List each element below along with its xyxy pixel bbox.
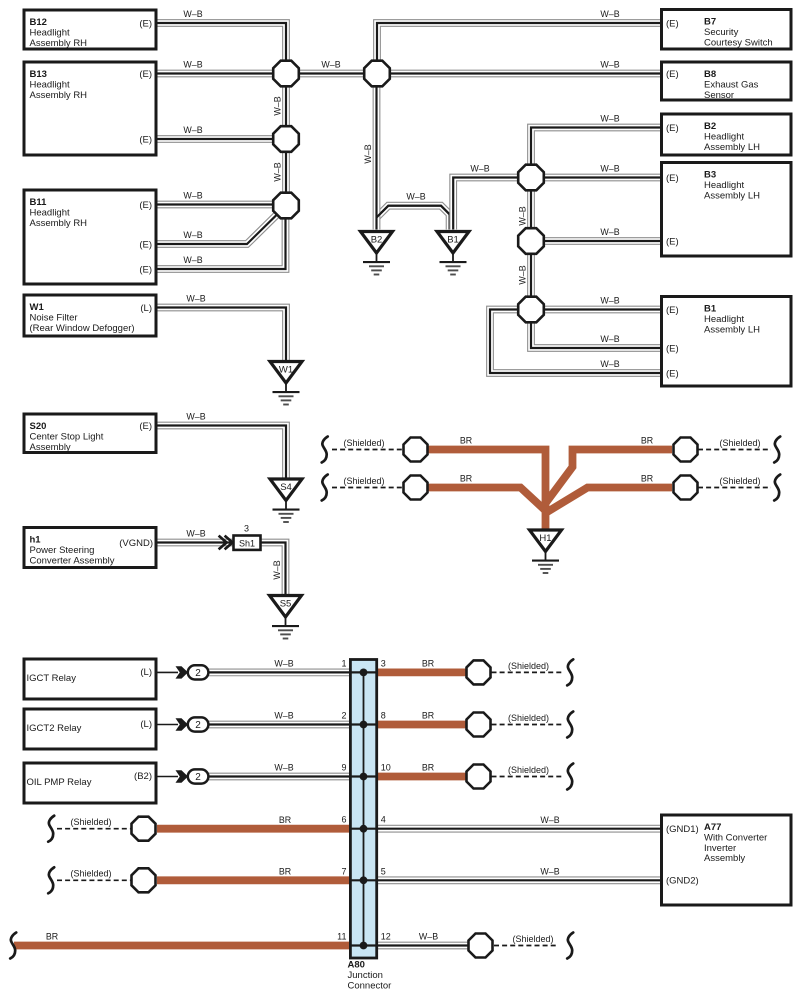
svg-text:(E): (E) [666, 123, 679, 134]
wire W-B jog black core patch [377, 206, 450, 230]
junction connector J/D [273, 193, 299, 219]
label W-B on h1 wire [186, 529, 205, 539]
svg-text:W–B: W–B [600, 334, 619, 344]
ground B2 [361, 232, 393, 275]
label Shielded A80 pin10 [508, 765, 549, 775]
wire W-B A80 pin5 to A77 GND2 [375, 876, 662, 884]
shield break mark A80 pin10 [567, 764, 573, 790]
text B8 Exhaust Gas Sensor [704, 69, 759, 101]
shield connector A80 pin8 [467, 713, 491, 737]
wire W-B junction J/A to J/C [282, 81, 290, 131]
text OIL PMP Relay [27, 777, 92, 788]
wire shield dashed row1 left [332, 449, 404, 451]
connector box B1 Headlight Assembly LH [662, 297, 792, 387]
text B13 Headlight Assembly RH [30, 69, 88, 101]
pin 2 label of A80 [341, 711, 346, 721]
pin 11 label of A80 [337, 932, 346, 942]
label W-B vertical on J/F-J/G wire [518, 265, 528, 284]
svg-text:Assembly LH: Assembly LH [704, 142, 760, 153]
svg-text:S5: S5 [280, 599, 292, 610]
label W-B on B1 pin1 wire [600, 296, 619, 306]
svg-text:Assembly LH: Assembly LH [704, 324, 760, 335]
wire W-B junction J/F to B3 pin2 [538, 237, 662, 245]
pin 1 label of A80 [341, 658, 346, 668]
pin 10 label of A80 [381, 763, 391, 773]
pin (E) 1 of B1 [666, 305, 679, 316]
label BR on A80 pin6 wire [279, 815, 291, 825]
pin (L) of W1 [140, 303, 152, 314]
label W-B on B7 wire [600, 9, 619, 19]
svg-text:11: 11 [337, 932, 346, 942]
shield terminal Sh1 [219, 536, 261, 550]
label W-B on B13 pin2 wire [183, 125, 202, 135]
label W-B on W1 wire [186, 294, 205, 304]
svg-text:BR: BR [279, 815, 291, 825]
pin (VGND) of h1 [119, 538, 153, 549]
svg-text:W–B: W–B [600, 296, 619, 306]
svg-text:B1: B1 [447, 235, 459, 246]
svg-text:(L): (L) [140, 667, 152, 678]
svg-text:W–B: W–B [600, 227, 619, 237]
label W-B vertical on Sh1-groundS5 wire [272, 560, 282, 579]
pin (E) 2 of B11 [139, 239, 152, 250]
label Shielded A80 pin7 [70, 869, 111, 879]
svg-text:W–B: W–B [600, 114, 619, 124]
text B1 Headlight Assembly LH [704, 304, 760, 336]
svg-text:W–B: W–B [518, 206, 528, 225]
svg-text:Courtesy Switch: Courtesy Switch [704, 37, 773, 48]
wire BR A80 pin3 to shield connector [375, 669, 467, 677]
connector box B3 Headlight Assembly LH [662, 163, 792, 257]
svg-text:W–B: W–B [518, 265, 528, 284]
label W-B on A80 pin1 wire [274, 659, 293, 669]
wire shield dashed A80 pin10 row [492, 776, 565, 778]
wire W-B junction J/G to B1 pin2 [531, 316, 662, 348]
svg-text:(E): (E) [139, 200, 152, 211]
shield connector A80 pin12 [469, 934, 493, 958]
label W-B on B1 pin3 wire [600, 359, 619, 369]
svg-text:BR: BR [422, 659, 434, 669]
connector box h1 Power Steering Converter Assembly [24, 528, 156, 568]
text B11 Headlight Assembly RH [30, 197, 88, 229]
junction connector J/C [273, 126, 299, 152]
pin (L) of IGCT Relay [140, 667, 152, 678]
svg-text:(E): (E) [666, 18, 679, 29]
svg-text:A77: A77 [704, 822, 721, 833]
svg-text:W–B: W–B [406, 192, 425, 202]
svg-text:(L): (L) [140, 719, 152, 730]
connector box B2 Headlight Assembly LH [662, 114, 792, 155]
svg-text:(E): (E) [139, 134, 152, 145]
svg-text:W–B: W–B [183, 191, 202, 201]
label W-B on B12 wire [183, 9, 202, 19]
svg-text:Headlight: Headlight [704, 180, 744, 191]
label BR on A80 pin11 wire [46, 932, 58, 942]
pin (E) of S20 [139, 421, 152, 432]
wire shield dashed A80 pin12 row [494, 945, 558, 947]
svg-text:Assembly LH: Assembly LH [704, 190, 760, 201]
svg-text:1: 1 [341, 658, 346, 668]
shield connector A80 pin7 [132, 868, 156, 892]
svg-text:Headlight: Headlight [30, 207, 70, 218]
svg-text:Headlight: Headlight [30, 27, 70, 38]
shield connector row1 right [674, 438, 698, 462]
label W-B on B11 pin3 wire [183, 255, 202, 265]
text h1 Power Steering Converter Assembly [30, 535, 115, 567]
label BR on row1 right wire [641, 436, 653, 446]
wire W-B junction J/B to B8 [384, 70, 662, 78]
pin (E) top of B3 [666, 173, 679, 184]
svg-text:BR: BR [279, 867, 291, 877]
text W1 Noise Filter [30, 302, 135, 334]
svg-text:B8: B8 [704, 69, 716, 80]
svg-text:W–B: W–B [321, 60, 340, 70]
ground S5 [270, 596, 302, 639]
connector box W1 Noise Filter [24, 295, 156, 336]
wire shield dashed A80 pin7 row [57, 879, 132, 881]
label W-B on A80 pin12 wire [419, 932, 438, 942]
svg-text:5: 5 [381, 866, 386, 876]
svg-text:(E): (E) [139, 264, 152, 275]
label BR on row1 left wire [460, 436, 472, 446]
shield break mark A80 pin6 [48, 816, 54, 842]
pin (E) bottom of B13 [139, 134, 152, 145]
label W-B on A80 pin5 wire [540, 867, 559, 877]
wire W-B junction J/G to B1 pin1 [538, 306, 662, 314]
shield break mark row1 right [774, 437, 780, 463]
connector box IGCT Relay [24, 659, 156, 699]
svg-text:B13: B13 [30, 69, 47, 80]
svg-text:B1: B1 [704, 304, 717, 315]
junction connector J/E [518, 165, 544, 191]
label W-B vertical on J/C-J/D wire [273, 162, 283, 181]
wire W-B jog ground B2 to ground B1 [377, 206, 450, 230]
svg-text:Assembly: Assembly [704, 853, 745, 864]
svg-text:B11: B11 [30, 197, 48, 208]
svg-text:(L): (L) [140, 303, 152, 314]
label W-B on B3 pin2 wire [600, 227, 619, 237]
shield break mark A80 pin3 [567, 659, 573, 685]
shield connector row2 left [404, 476, 428, 500]
svg-text:W–B: W–B [273, 96, 283, 115]
shield connector A80 pin3 [467, 660, 491, 684]
wire BR shield to A80 pin11 [14, 942, 352, 950]
shield break mark row2 left [322, 475, 328, 501]
ground H1 [530, 530, 562, 573]
label BR on A80 pin3 wire [422, 659, 434, 669]
svg-text:W–B: W–B [470, 164, 489, 174]
connector box A77 With Converter Inverter Assembly [662, 815, 792, 905]
pin 4 label of A80 [381, 815, 386, 825]
label W-B on B11 pin1 wire [183, 191, 202, 201]
pin 8 label of A80 [381, 711, 386, 721]
svg-text:IGCT Relay: IGCT Relay [27, 673, 77, 684]
wire W-B B2 to junction J/E [531, 128, 662, 171]
svg-text:B2: B2 [371, 235, 383, 246]
shield connector row2 right [674, 476, 698, 500]
wire W-B B12 to junction J/A [156, 23, 286, 66]
svg-text:W–B: W–B [363, 144, 373, 163]
label Shielded A80 pin6 [70, 817, 111, 827]
svg-text:3: 3 [244, 524, 249, 534]
shield break mark row2 right [774, 475, 780, 501]
shield connector row1 left [404, 438, 428, 462]
svg-text:W–B: W–B [274, 763, 293, 773]
wire shield dashed row1 right [698, 449, 771, 451]
svg-text:W–B: W–B [183, 125, 202, 135]
connector box B8 Exhaust Gas Sensor [662, 62, 792, 100]
svg-text:B3: B3 [704, 170, 716, 181]
wire W-B junction J/E to ground B1 [453, 178, 524, 230]
svg-text:W–B: W–B [186, 412, 205, 422]
label BR on A80 pin7 wire [279, 867, 291, 877]
svg-text:W–B: W–B [274, 711, 293, 721]
svg-text:A80: A80 [348, 960, 365, 971]
svg-text:(VGND): (VGND) [119, 538, 153, 549]
pin (E) of B8 [666, 69, 679, 80]
connector box IGCT2 Relay [24, 709, 156, 749]
svg-text:(Shielded): (Shielded) [343, 438, 384, 448]
label Shielded row2 left [343, 476, 384, 486]
svg-text:B7: B7 [704, 17, 716, 28]
svg-text:(E): (E) [666, 368, 679, 379]
text IGCT Relay [27, 673, 77, 684]
svg-text:2: 2 [195, 772, 201, 783]
label Shielded row1 left [343, 438, 384, 448]
wire W-B B11 pin3 to junction J/D [156, 212, 286, 269]
pin 6 label of A80 [341, 815, 346, 825]
pin 7 label of A80 [341, 866, 346, 876]
label W-B vertical on J/E-J/F wire [518, 206, 528, 225]
terminal symbol 2 of OIL PMP Relay [156, 769, 208, 783]
label W-B on A80 pin2 wire [274, 711, 293, 721]
pin (E) 1 of B11 [139, 200, 152, 211]
wire W-B junction J/A to J/B [294, 70, 370, 78]
connector box B7 Security Courtesy Switch [662, 10, 792, 50]
svg-text:(GND1): (GND1) [666, 824, 699, 835]
text B2 Headlight Assembly LH [704, 121, 760, 153]
wire W-B B13 pin1 to junction J/A [156, 70, 278, 78]
svg-text:Junction: Junction [348, 970, 383, 981]
svg-text:(E): (E) [666, 236, 679, 247]
svg-text:W–B: W–B [183, 255, 202, 265]
junction connector J/A [273, 61, 299, 87]
label Shielded A80 pin12 [512, 934, 553, 944]
pin 5 label of A80 [381, 866, 386, 876]
svg-text:Power Steering: Power Steering [30, 545, 95, 556]
svg-text:9: 9 [341, 763, 346, 773]
svg-text:3: 3 [381, 658, 386, 668]
label W-B on J/E ground wire [470, 164, 489, 174]
svg-text:W–B: W–B [600, 164, 619, 174]
svg-text:(Shielded): (Shielded) [70, 869, 111, 879]
connector box B11 Headlight Assembly RH [24, 190, 156, 284]
label W-B on B1 pin2 wire [600, 334, 619, 344]
terminal symbol 2 of IGCT Relay [156, 665, 208, 679]
wire BR shield to A80 pin6 [157, 825, 352, 833]
wire W-B junction J/B to ground B2 [373, 81, 381, 230]
wire W-B junction J/B to B7 [377, 23, 662, 64]
pin (GND2) of A77 [666, 876, 699, 887]
svg-text:2: 2 [195, 668, 201, 679]
svg-text:B12: B12 [30, 17, 47, 28]
label Shielded row1 right [719, 438, 760, 448]
wire W-B W1 to ground W1 [156, 308, 286, 363]
svg-text:BR: BR [46, 932, 58, 942]
wire BR shield row2 left [427, 488, 548, 513]
svg-text:(E): (E) [139, 69, 152, 80]
wire BR A80 pin10 to shield connector [375, 773, 467, 781]
pin (B2) of OIL PMP Relay [134, 771, 152, 782]
svg-text:(Shielded): (Shielded) [508, 765, 549, 775]
svg-text:(Shielded): (Shielded) [719, 476, 760, 486]
connector box B12 Headlight Assembly RH [24, 10, 156, 49]
svg-text:(Shielded): (Shielded) [512, 934, 553, 944]
wire W-B B13 pin2 to junction J/C [156, 135, 278, 143]
wire W-B S20 to ground S4 [156, 426, 286, 482]
svg-text:W–B: W–B [186, 294, 205, 304]
svg-text:W1: W1 [279, 365, 293, 376]
junction connector J/B [364, 61, 390, 87]
svg-text:(E): (E) [666, 173, 679, 184]
junction connector A80 [350, 660, 376, 959]
pin (E) of B12 [139, 18, 152, 29]
svg-text:(E): (E) [666, 305, 679, 316]
label W-B on A80 pin9 wire [274, 763, 293, 773]
svg-text:W–B: W–B [183, 230, 202, 240]
label W-B on A80 pin4 wire [540, 815, 559, 825]
svg-text:(Shielded): (Shielded) [508, 713, 549, 723]
pin 9 label of A80 [341, 763, 346, 773]
svg-text:Security: Security [704, 27, 739, 38]
svg-text:IGCT2 Relay: IGCT2 Relay [27, 723, 82, 734]
wire shield dashed A80 pin6 row [57, 828, 132, 830]
wire W-B B11 pin1 to junction J/D [156, 201, 278, 209]
svg-text:BR: BR [641, 474, 653, 484]
svg-text:S20: S20 [30, 421, 47, 432]
svg-text:Sensor: Sensor [704, 90, 734, 101]
svg-text:Inverter: Inverter [704, 843, 736, 854]
svg-text:Center Stop Light: Center Stop Light [30, 431, 104, 442]
pin (E) bottom of B3 [666, 236, 679, 247]
svg-text:BR: BR [460, 436, 472, 446]
wire W-B h1 to shield Sh1 [156, 539, 234, 547]
junction connector J/F [518, 228, 544, 254]
svg-text:Assembly RH: Assembly RH [30, 218, 88, 229]
svg-text:8: 8 [381, 711, 386, 721]
pin 3 label of Sh1 [244, 524, 249, 534]
wire BR shield row1 left to ground H1 [427, 450, 546, 533]
label BR on row2 right wire [641, 474, 653, 484]
svg-text:BR: BR [422, 763, 434, 773]
svg-text:(B2): (B2) [134, 771, 152, 782]
connector box OIL PMP Relay [24, 763, 156, 803]
wire W-B junction J/E to B3 pin1 [538, 174, 662, 182]
wire shield dashed A80 pin8 row [492, 724, 565, 726]
svg-text:W–B: W–B [600, 359, 619, 369]
label W-B vertical on J/B-groundB2 wire [363, 144, 373, 163]
wire BR shield row2 right [543, 488, 672, 515]
svg-text:(E): (E) [666, 69, 679, 80]
text A77 With Converter Inverter Assembly [704, 822, 767, 864]
wire BR A80 pin8 to shield connector [375, 721, 467, 729]
pin (E) 3 of B11 [139, 264, 152, 275]
svg-text:W–B: W–B [186, 529, 205, 539]
text S20 Center Stop Light Assembly [30, 421, 104, 453]
svg-text:W–B: W–B [540, 815, 559, 825]
svg-text:Headlight: Headlight [704, 131, 744, 142]
text IGCT2 Relay [27, 723, 82, 734]
svg-text:6: 6 [341, 815, 346, 825]
svg-text:W–B: W–B [272, 560, 282, 579]
svg-text:Noise Filter: Noise Filter [30, 312, 78, 323]
svg-text:Assembly: Assembly [30, 442, 71, 453]
svg-text:2: 2 [341, 711, 346, 721]
label W-B on S20 wire [186, 412, 205, 422]
wire W-B A80 pin12 to shield connector [375, 942, 471, 950]
wire W-B IGCT2 relay to A80 pin2 [208, 721, 352, 729]
shield connector A80 pin6 [132, 817, 156, 841]
wire W-B junction J/F to J/G [527, 248, 535, 302]
label Shielded row2 right [719, 476, 760, 486]
svg-text:Headlight: Headlight [30, 79, 70, 90]
svg-text:Sh1: Sh1 [239, 539, 255, 549]
junction connector J/G [518, 297, 544, 323]
label W-B on B13 pin1 wire [183, 60, 202, 70]
label W-B on B8 wire [600, 60, 619, 70]
wire shield dashed row2 left [332, 487, 404, 489]
svg-text:W1: W1 [30, 302, 45, 313]
label BR on row2 left wire [460, 474, 472, 484]
svg-text:4: 4 [381, 815, 386, 825]
svg-text:BR: BR [460, 474, 472, 484]
pin (E) of B2 [666, 123, 679, 134]
svg-text:W–B: W–B [540, 867, 559, 877]
svg-text:(E): (E) [139, 421, 152, 432]
svg-text:B2: B2 [704, 121, 716, 132]
svg-text:10: 10 [381, 763, 391, 773]
svg-text:W–B: W–B [600, 9, 619, 19]
svg-text:(Shielded): (Shielded) [343, 476, 384, 486]
wire shield dashed A80 pin3 row [492, 671, 565, 673]
terminal symbol 2 of IGCT2 Relay [156, 717, 208, 731]
ground W1 [270, 362, 302, 405]
pin 3 label of A80 [381, 658, 386, 668]
svg-text:12: 12 [381, 932, 391, 942]
pin (E) of B7 [666, 18, 679, 29]
wire BR shield to A80 pin7 [157, 876, 352, 884]
svg-text:(Rear Window Defogger): (Rear Window Defogger) [30, 323, 135, 334]
label BR on A80 pin8 wire [422, 711, 434, 721]
pin 12 label of A80 [381, 932, 391, 942]
connector box S20 Center Stop Light Assembly [24, 414, 156, 453]
wire W-B Sh1 to ground S5 [260, 543, 286, 599]
svg-text:(GND2): (GND2) [666, 876, 699, 887]
text A80 Junction Connector [348, 960, 392, 992]
shield break mark A80 pin12 [567, 933, 573, 959]
label BR on A80 pin10 wire [422, 763, 434, 773]
label Shielded A80 pin3 [508, 661, 549, 671]
shield break mark A80 pin7 [48, 867, 54, 893]
pin (E) top of B13 [139, 69, 152, 80]
ground S4 [270, 479, 302, 522]
svg-text:W–B: W–B [600, 60, 619, 70]
svg-text:S4: S4 [280, 482, 292, 493]
label Shielded A80 pin8 [508, 713, 549, 723]
shield connector A80 pin10 [467, 765, 491, 789]
svg-text:W–B: W–B [183, 9, 202, 19]
shield break mark A80 pin11 [10, 933, 16, 959]
